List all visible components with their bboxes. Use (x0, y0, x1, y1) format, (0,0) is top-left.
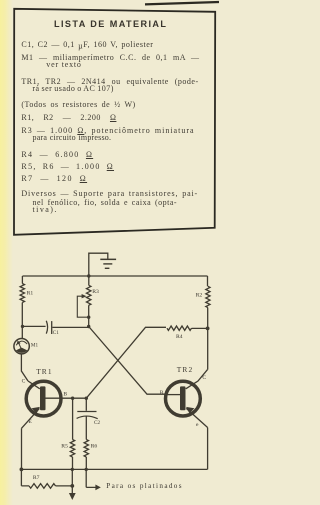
junction node TR2 base (164, 393, 167, 396)
page edge line top right (145, 2, 219, 4)
wire C1 branch (23, 326, 89, 327)
svg-text:R2: R2 (196, 293, 203, 299)
wire right rail upper (207, 276, 209, 370)
TR2 emitter lead (186, 408, 207, 427)
capacitor C2 (77, 411, 96, 413)
svg-text:E: E (28, 419, 32, 425)
svg-text:R1: R1 (27, 290, 34, 296)
transistor TR2 (166, 381, 201, 416)
TR2 base inner lead (166, 394, 180, 396)
wire cross diagonal R3 node to TR2 base (89, 327, 167, 395)
M1 pivot (16, 348, 27, 353)
svg-text:M1: M1 (31, 342, 39, 348)
wire R7 branch (21, 469, 72, 486)
R3 wiper return wire (77, 296, 88, 317)
wire C2 branch (85, 398, 87, 469)
wire output down arrow (71, 469, 73, 494)
TR1 base wire (45, 397, 86, 399)
junction node R3 bottom (87, 325, 90, 328)
svg-text:R5: R5 (61, 444, 68, 450)
circuit schematic (0, 0, 219, 505)
wire R5 branch (72, 398, 74, 469)
box border (14, 9, 215, 235)
svg-text:R7: R7 (33, 475, 40, 481)
resistor R5 (70, 440, 74, 458)
svg-text:C: C (22, 378, 26, 384)
wire output right arrow (86, 469, 96, 487)
junction node bottom left (20, 468, 24, 472)
svg-text:TR1: TR1 (36, 367, 52, 376)
junction node R3 top (87, 274, 90, 277)
wire left rail lower (21, 428, 23, 469)
svg-text:B: B (160, 390, 164, 396)
svg-text:R3: R3 (92, 289, 99, 295)
svg-text:C1: C1 (53, 330, 59, 336)
resistor R2 (206, 286, 210, 307)
TR1 emitter lead (22, 408, 40, 428)
TR2 base bar (180, 386, 186, 410)
parts list box frame (0, 0, 219, 505)
wire left rail upper (21, 276, 23, 339)
junction node R5 top (71, 397, 74, 400)
wire right rail lower (207, 428, 209, 470)
svg-text:Para os platinados: Para os platinados (106, 482, 183, 490)
svg-text:C: C (202, 375, 206, 381)
wire TR2 collector lead (186, 370, 208, 389)
junction node C2 top (85, 397, 88, 400)
svg-text:TR2: TR2 (177, 365, 193, 374)
resistor R7 (29, 484, 56, 489)
wire R3 branch (88, 276, 90, 327)
resistor R4 (167, 326, 192, 330)
wire cross diagonal TR1 base to R4 (86, 327, 166, 398)
resistor R1 (20, 284, 24, 303)
title LISTA DE MATERIAL (54, 19, 167, 29)
svg-text:e: e (196, 422, 199, 428)
wire bottom rail (21, 468, 207, 470)
ground wire (89, 253, 108, 276)
meter M1 (14, 339, 29, 354)
junction node C1 left (21, 325, 24, 328)
junction node R4 right (206, 327, 210, 331)
R3 wiper arrowhead (82, 294, 87, 298)
potentiometer R3 (87, 285, 91, 305)
output right arrowhead (95, 485, 100, 491)
TR1 base bar (40, 386, 46, 410)
svg-text:B: B (63, 391, 67, 397)
ground symbol (100, 259, 116, 261)
svg-text:C2: C2 (94, 420, 100, 426)
TR2 emitter arrowhead (186, 407, 194, 414)
output down arrowhead (69, 493, 76, 500)
svg-text:R6: R6 (91, 444, 98, 450)
junction node R7 right (70, 484, 74, 488)
wire R4 to right rail (192, 327, 208, 329)
capacitor C1 (46, 321, 47, 334)
wire top rail (23, 275, 208, 277)
M1 needle arrowhead (17, 340, 21, 344)
junction node R5 bottom (71, 468, 74, 471)
transistor TR1 (26, 381, 61, 416)
parts list text (21, 41, 153, 51)
TR1 emitter arrowhead (32, 407, 40, 414)
svg-text:R4: R4 (176, 334, 183, 340)
junction node wiper bottom (87, 316, 90, 319)
wire M1 to TR1 collector (21, 354, 28, 381)
junction node arrow branch (85, 468, 88, 471)
resistor R6 (84, 440, 88, 458)
